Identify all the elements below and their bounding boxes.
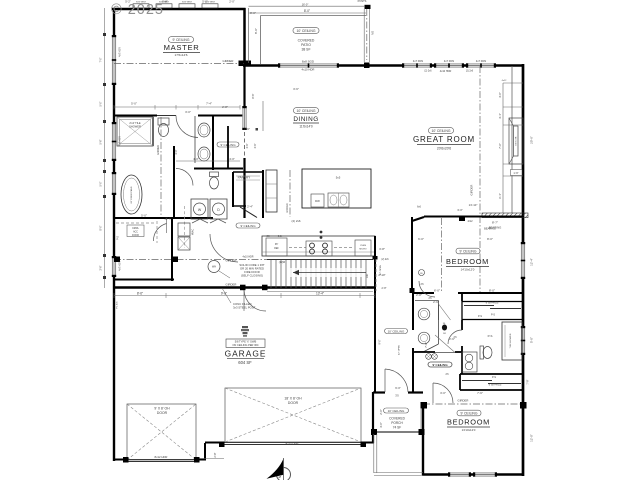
svg-text:POSTS: POSTS xyxy=(358,0,367,3)
svg-text:BEDROOM: BEDROOM xyxy=(447,417,490,426)
svg-text:(13)R: (13)R xyxy=(279,260,286,264)
svg-text:HVAC: HVAC xyxy=(192,229,195,236)
svg-text:(2) 2x6: (2) 2x6 xyxy=(292,219,301,223)
svg-text:CRWL: CRWL xyxy=(132,228,139,230)
svg-text:4'-0": 4'-0" xyxy=(174,149,178,154)
svg-text:6'-1": 6'-1" xyxy=(498,193,502,199)
svg-text:DOOR: DOOR xyxy=(288,401,299,405)
svg-text:ENT CTR: ENT CTR xyxy=(516,136,518,145)
svg-text:4x10 HDR: 4x10 HDR xyxy=(242,256,253,259)
svg-text:5'-0": 5'-0" xyxy=(100,101,103,106)
svg-text:9' CEILING: 9' CEILING xyxy=(172,38,189,42)
svg-text:12'-6": 12'-6" xyxy=(164,217,171,221)
svg-text:4x7 FDN: 4x7 FDN xyxy=(444,59,454,63)
svg-text:2'x4' TILE: 2'x4' TILE xyxy=(129,121,141,125)
svg-text:4'-1": 4'-1" xyxy=(498,113,502,119)
svg-text:P-S: P-S xyxy=(491,314,495,317)
svg-text:20'6x20'6: 20'6x20'6 xyxy=(437,147,451,151)
svg-text:2'-10": 2'-10" xyxy=(378,273,385,277)
svg-text:3'-6": 3'-6" xyxy=(293,87,299,91)
svg-text:18' X 8' OH: 18' X 8' OH xyxy=(284,397,302,401)
svg-text:GIRDER: GIRDER xyxy=(458,399,469,403)
svg-text:4x10 HDR: 4x10 HDR xyxy=(440,70,452,73)
svg-text:(2) 2x6: (2) 2x6 xyxy=(424,71,432,73)
svg-text:MICRO: MICRO xyxy=(359,249,367,251)
svg-text:8'-0": 8'-0" xyxy=(100,225,103,230)
svg-text:6'-0": 6'-0" xyxy=(418,237,424,241)
svg-text:2'-0": 2'-0" xyxy=(379,409,383,415)
svg-text:SGV VENT: SGV VENT xyxy=(182,2,193,4)
svg-text:COVERED: COVERED xyxy=(389,417,405,421)
svg-text:4'-0": 4'-0" xyxy=(229,157,235,161)
svg-text:9' CEILING: 9' CEILING xyxy=(432,363,448,367)
svg-text:10' CEILING: 10' CEILING xyxy=(432,129,451,133)
svg-text:BEARING: BEARING xyxy=(484,227,496,231)
svg-text:2'-6": 2'-6" xyxy=(449,337,455,341)
svg-text:13'10x12'0: 13'10x12'0 xyxy=(462,428,476,432)
svg-text:2'-8": 2'-8" xyxy=(416,293,422,297)
svg-text:5'-6": 5'-6" xyxy=(100,139,103,144)
svg-text:DOOR: DOOR xyxy=(157,411,168,415)
svg-text:GREAT ROOM: GREAT ROOM xyxy=(413,135,475,144)
svg-text:5'-2": 5'-2" xyxy=(202,0,208,4)
svg-text:4/12: 4/12 xyxy=(467,219,473,223)
svg-text:9' X 8' OH: 9' X 8' OH xyxy=(154,407,170,411)
svg-text:4x7 FDN: 4x7 FDN xyxy=(413,59,423,63)
svg-text:2'-8": 2'-8" xyxy=(213,452,217,457)
svg-text:5x5: 5x5 xyxy=(336,176,341,180)
svg-text:GIRDER: GIRDER xyxy=(286,203,289,213)
svg-text:604 SF: 604 SF xyxy=(238,360,252,365)
svg-text:10' CEILING: 10' CEILING xyxy=(388,409,405,413)
svg-text:OVEN: OVEN xyxy=(360,245,367,247)
svg-text:P-S: P-S xyxy=(492,376,496,379)
svg-text:7'-0": 7'-0" xyxy=(100,57,103,62)
svg-text:2'-8": 2'-8" xyxy=(382,287,387,290)
svg-text:GIRDER: GIRDER xyxy=(226,283,237,287)
svg-text:9' CEILING: 9' CEILING xyxy=(460,411,477,415)
svg-text:2'-0": 2'-0" xyxy=(229,0,235,4)
svg-text:8'-0": 8'-0" xyxy=(254,28,258,34)
svg-text:5'-0": 5'-0" xyxy=(100,181,103,186)
svg-text:6'-0": 6'-0" xyxy=(434,289,440,293)
svg-text:5'-0": 5'-0" xyxy=(530,337,534,343)
svg-text:16R: 16R xyxy=(367,274,369,278)
svg-text:8x8 SGD: 8x8 SGD xyxy=(302,60,315,64)
svg-text:74 SF: 74 SF xyxy=(393,426,402,430)
svg-text:10' CEILING: 10' CEILING xyxy=(388,329,405,333)
svg-text:ON CEILING PER IRC: ON CEILING PER IRC xyxy=(232,343,258,347)
svg-text:42" OPEN: 42" OPEN xyxy=(399,345,401,355)
svg-text:GIRDER: GIRDER xyxy=(156,145,160,155)
svg-text:PATIO: PATIO xyxy=(301,43,311,47)
svg-text:P-S: P-S xyxy=(478,315,482,318)
svg-text:9' CEILING: 9' CEILING xyxy=(459,249,476,253)
svg-text:3'0: 3'0 xyxy=(395,394,399,398)
svg-text:8'-0": 8'-0" xyxy=(304,9,310,13)
svg-text:7'-6": 7'-6" xyxy=(477,391,483,395)
svg-text:13'-4": 13'-4" xyxy=(316,292,324,296)
svg-text:3'-0": 3'-0" xyxy=(457,208,463,212)
svg-text:GARAGE: GARAGE xyxy=(225,349,267,359)
svg-text:5'-0": 5'-0" xyxy=(141,214,147,218)
svg-text:P-S: P-S xyxy=(488,334,493,338)
svg-text:3'-6": 3'-6" xyxy=(254,143,257,148)
svg-text:DINING: DINING xyxy=(293,116,318,123)
svg-text:6'-0": 6'-0" xyxy=(395,386,401,390)
svg-text:(2) 2x6: (2) 2x6 xyxy=(381,259,389,261)
svg-text:2'-4": 2'-4" xyxy=(247,205,253,209)
svg-text:17'6x14'6: 17'6x14'6 xyxy=(174,53,187,57)
svg-text:4x7 HDR: 4x7 HDR xyxy=(119,136,122,146)
svg-text:8'-0": 8'-0" xyxy=(487,237,493,241)
svg-text:8'-7": 8'-7" xyxy=(492,221,498,225)
svg-text:9' BI-PASS: 9' BI-PASS xyxy=(489,383,502,387)
svg-text:2'-6": 2'-6" xyxy=(433,300,439,304)
svg-text:9' CEILING: 9' CEILING xyxy=(240,224,256,228)
svg-text:S.C.: S.C. xyxy=(278,236,283,238)
svg-text:© 2025: © 2025 xyxy=(111,2,164,18)
svg-text:5'-0": 5'-0" xyxy=(131,102,137,106)
svg-text:16'-0": 16'-0" xyxy=(302,3,309,7)
svg-text:DW: DW xyxy=(315,199,320,203)
svg-text:COVERED: COVERED xyxy=(298,39,315,43)
svg-text:GIRDER: GIRDER xyxy=(226,259,237,263)
svg-text:P-S: P-S xyxy=(117,236,120,240)
svg-text:8x12 HDR: 8x12 HDR xyxy=(155,455,168,459)
svg-text:REF: REF xyxy=(274,248,279,250)
svg-text:4'-0": 4'-0" xyxy=(498,92,502,98)
svg-text:9'-6": 9'-6" xyxy=(221,292,227,296)
svg-text:GIRDER: GIRDER xyxy=(470,185,474,196)
svg-text:8'-0": 8'-0" xyxy=(489,289,495,293)
svg-text:13'-10": 13'-10" xyxy=(469,203,478,207)
svg-text:3'-0": 3'-0" xyxy=(440,391,446,395)
svg-text:12'-0": 12'-0" xyxy=(530,434,534,442)
svg-text:3'-6": 3'-6" xyxy=(246,143,249,148)
svg-text:MASTER: MASTER xyxy=(164,43,200,52)
svg-text:ACC: ACC xyxy=(133,231,138,234)
svg-text:BEDROOM: BEDROOM xyxy=(446,257,489,266)
svg-text:7'-9": 7'-9" xyxy=(526,379,530,384)
svg-text:8'-0": 8'-0" xyxy=(250,11,256,15)
svg-text:4'-0": 4'-0" xyxy=(193,157,199,161)
svg-text:7'-0": 7'-0" xyxy=(424,342,428,348)
svg-text:8'-6": 8'-6" xyxy=(137,292,143,296)
svg-text:38 SF: 38 SF xyxy=(301,48,310,52)
svg-text:20'-6": 20'-6" xyxy=(530,136,534,144)
svg-text:PORCH: PORCH xyxy=(391,421,403,425)
svg-text:4x12: 4x12 xyxy=(502,80,508,82)
svg-text:9' BI-PASS: 9' BI-PASS xyxy=(486,301,499,305)
svg-text:10' CEILING: 10' CEILING xyxy=(297,29,316,33)
svg-text:14'10x12'0: 14'10x12'0 xyxy=(461,268,475,272)
svg-text:GIRDER: GIRDER xyxy=(223,59,234,63)
svg-text:4x7 FDN: 4x7 FDN xyxy=(476,59,486,63)
svg-text:7'-4": 7'-4" xyxy=(206,102,212,106)
svg-text:WH: WH xyxy=(212,266,216,269)
svg-text:3'-8": 3'-8" xyxy=(379,247,385,251)
svg-text:8'-6": 8'-6" xyxy=(251,93,255,98)
svg-text:11'6x14'0: 11'6x14'0 xyxy=(299,125,312,129)
svg-text:66" FREESTAND: 66" FREESTAND xyxy=(130,186,133,203)
svg-text:36": 36" xyxy=(275,244,279,246)
svg-text:4'-0": 4'-0" xyxy=(379,422,383,428)
svg-text:4x7 HDR: 4x7 HDR xyxy=(119,47,122,57)
svg-text:7'-6": 7'-6" xyxy=(498,143,502,149)
svg-text:9'-0": 9'-0" xyxy=(379,339,382,344)
svg-text:DN: DN xyxy=(371,31,375,35)
svg-text:2'-6": 2'-6" xyxy=(244,127,250,131)
svg-text:(2) 2x6: (2) 2x6 xyxy=(466,71,474,73)
svg-text:TUB SHOWER: TUB SHOWER xyxy=(510,333,512,348)
svg-text:P.L.B.C: P.L.B.C xyxy=(117,301,119,309)
svg-text:3'-0": 3'-0" xyxy=(185,110,191,114)
svg-text:1'-6": 1'-6" xyxy=(513,171,518,175)
svg-text:12'-4": 12'-4" xyxy=(530,258,534,266)
svg-text:8x12 HDR: 8x12 HDR xyxy=(286,442,299,446)
svg-text:SHOWER: SHOWER xyxy=(129,125,141,129)
svg-text:2'-8": 2'-8" xyxy=(222,105,228,109)
svg-text:(SELF CLOSING): (SELF CLOSING) xyxy=(241,274,263,278)
svg-text:4x7 HDR: 4x7 HDR xyxy=(119,261,122,271)
svg-text:3'-6": 3'-6" xyxy=(100,265,103,270)
svg-text:4x10 HDR: 4x10 HDR xyxy=(302,68,315,72)
svg-text:10' CEILING: 10' CEILING xyxy=(297,109,316,113)
